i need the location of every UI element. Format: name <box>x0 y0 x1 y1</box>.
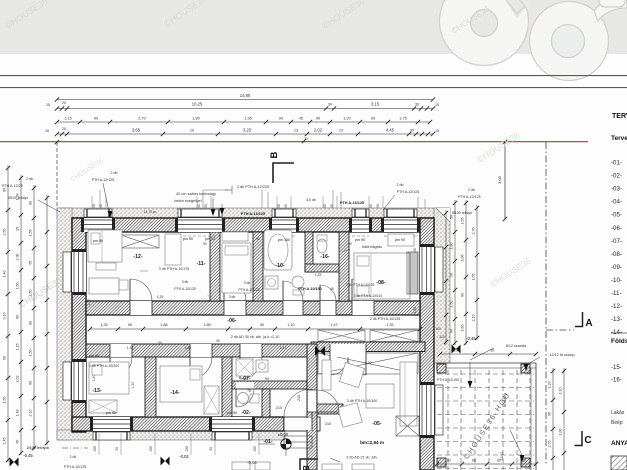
svg-text:80: 80 <box>472 459 476 463</box>
wall stub entry right <box>317 404 343 414</box>
wall mid A below top rooms <box>86 301 420 315</box>
double door room 05 <box>330 344 366 375</box>
dimension chain 10,25 row <box>57 108 433 110</box>
svg-text:-12-: -12- <box>133 254 142 260</box>
svg-text:90: 90 <box>260 323 264 327</box>
svg-text:PTH A-10/125: PTH A-10/125 <box>238 288 259 292</box>
svg-text:Beép: Beép <box>611 420 623 426</box>
svg-text:90: 90 <box>92 204 96 208</box>
svg-text:1,15: 1,15 <box>64 117 71 121</box>
terrace dim chain col 2 <box>563 368 565 470</box>
door bath 10 <box>283 281 303 315</box>
door room 12 <box>130 279 152 315</box>
svg-text:90: 90 <box>256 237 260 241</box>
svg-text:PTH A-12/125: PTH A-12/125 <box>397 190 420 194</box>
svg-text:90: 90 <box>371 117 375 121</box>
wall mid B right section <box>311 342 425 352</box>
svg-text:90: 90 <box>376 204 380 208</box>
red property line <box>0 141 588 142</box>
svg-text:1,00: 1,00 <box>559 429 563 436</box>
svg-text:-13-: -13- <box>611 316 622 323</box>
window bath 10 top <box>269 209 299 236</box>
svg-text:150: 150 <box>185 446 189 452</box>
entry steps <box>284 436 312 448</box>
svg-text:2 db: 2 db <box>16 254 20 261</box>
svg-text:-14-: -14- <box>611 329 622 336</box>
svg-text:pm 90: pm 90 <box>106 411 116 415</box>
svg-text:-16-: -16- <box>611 378 622 384</box>
section marker B bottom <box>300 459 318 470</box>
svg-text:-0,45: -0,45 <box>23 453 33 458</box>
svg-text:210: 210 <box>325 422 331 426</box>
door room 11 <box>224 279 246 315</box>
left dim chain col 4 <box>46 195 48 445</box>
svg-text:90: 90 <box>204 204 208 208</box>
svg-text:Lakás: Lakás <box>611 410 625 416</box>
svg-text:1,50: 1,50 <box>3 397 7 404</box>
svg-text:1,55: 1,55 <box>461 218 465 225</box>
svg-text:20: 20 <box>62 101 66 105</box>
svg-text:1,80: 1,80 <box>192 117 199 121</box>
svg-text:3 db PTH A-10/200: 3 db PTH A-10/200 <box>89 364 120 368</box>
svg-text:-06-: -06- <box>227 318 236 324</box>
svg-text:-13-: -13- <box>92 388 101 394</box>
legend material swatch <box>611 456 627 470</box>
right dim chain col 1 <box>454 200 456 345</box>
svg-text:pm 90: pm 90 <box>205 237 215 241</box>
svg-text:2 db: 2 db <box>70 455 77 459</box>
wardrobe room 12 <box>165 234 181 265</box>
svg-text:90: 90 <box>203 242 207 246</box>
corridor dimension chain <box>90 328 420 330</box>
svg-text:2 db: 2 db <box>468 188 475 192</box>
partition 16 bottom <box>305 264 347 272</box>
door wc 16 <box>320 285 336 315</box>
svg-text:-0,04: -0,04 <box>247 460 257 465</box>
svg-text:2,02: 2,02 <box>314 128 323 133</box>
svg-text:pm 90: pm 90 <box>183 237 193 241</box>
svg-text:1,30: 1,30 <box>127 346 134 350</box>
svg-text:3 db: 3 db <box>182 280 189 284</box>
svg-text:90: 90 <box>3 356 7 360</box>
svg-text:45: 45 <box>299 117 303 121</box>
svg-text:90: 90 <box>330 204 334 208</box>
svg-text:8/12 szarufa: 8/12 szarufa <box>506 344 527 348</box>
svg-text:pm 90: pm 90 <box>93 239 103 243</box>
window room 13 bottom <box>90 417 133 440</box>
svg-text:-10-: -10- <box>275 263 284 269</box>
terrace post bottom right <box>521 458 530 467</box>
partition 13/14 <box>145 357 156 417</box>
door room 14 <box>190 344 212 379</box>
svg-text:TERVE: TERVE <box>612 113 627 120</box>
svg-text:14,80: 14,80 <box>240 93 251 98</box>
svg-text:PTH A-10/125: PTH A-10/125 <box>174 287 195 291</box>
svg-text:1,40: 1,40 <box>3 271 7 278</box>
svg-text:1,20: 1,20 <box>548 382 552 389</box>
bed room 12 <box>88 230 122 270</box>
table room 05 <box>366 384 394 408</box>
svg-text:-10-: -10- <box>611 277 622 284</box>
svg-text:90: 90 <box>413 248 417 252</box>
lintel X-brace between top windows <box>121 235 159 248</box>
svg-text:3 db: 3 db <box>229 295 236 299</box>
wardrobe X living room <box>396 416 419 436</box>
svg-text:30: 30 <box>415 103 419 107</box>
toilet wc 16 <box>317 235 327 253</box>
svg-text:-11-: -11- <box>611 290 622 297</box>
terrace top dim chain <box>440 353 536 355</box>
window room 08 top <box>381 209 420 236</box>
svg-text:80: 80 <box>497 459 501 463</box>
dash-dot section line A <box>545 142 547 465</box>
svg-text:90: 90 <box>94 117 98 121</box>
svg-text:15: 15 <box>45 129 49 133</box>
svg-text:1,47: 1,47 <box>280 346 287 350</box>
svg-text:PTH A-10/150: PTH A-10/150 <box>298 287 321 291</box>
svg-text:tükörvilágítás: tükörvilágítás <box>362 245 382 249</box>
gravel bed left band <box>57 208 72 440</box>
svg-text:90: 90 <box>29 201 33 205</box>
svg-text:80: 80 <box>447 459 451 463</box>
beam X-brace living room <box>318 353 418 374</box>
svg-text:3-0 db: 3-0 db <box>306 198 316 202</box>
svg-text:2,50: 2,50 <box>87 299 91 306</box>
svg-text:90: 90 <box>284 204 288 208</box>
svg-text:150: 150 <box>93 446 97 452</box>
svg-text:12/12 fa oszlop: 12/12 fa oszlop <box>549 353 574 357</box>
svg-text:C: C <box>584 435 591 446</box>
svg-text:1,80: 1,80 <box>203 323 210 327</box>
shelf room 11 <box>222 232 248 241</box>
window room 14 bottom <box>209 417 255 440</box>
svg-text:1,25: 1,25 <box>157 295 164 299</box>
svg-text:pm 90: pm 90 <box>395 238 405 242</box>
svg-text:-01-: -01- <box>611 160 622 167</box>
svg-text:90: 90 <box>29 321 33 325</box>
HOUSE36 logo digit 6 <box>530 0 627 81</box>
svg-text:30: 30 <box>490 349 494 353</box>
svg-text:4,45: 4,45 <box>386 128 395 133</box>
wardrobe room 08 <box>388 234 414 246</box>
sink room 02 <box>238 393 260 404</box>
svg-text:Ø100 lefolyók: Ø100 lefolyók <box>27 446 50 450</box>
terrace edge right <box>535 363 537 470</box>
svg-text:90: 90 <box>348 242 352 246</box>
terrace door room 05 right <box>420 382 443 438</box>
dimension chain detail row <box>57 121 430 123</box>
outer wall right <box>420 218 434 470</box>
svg-text:-05-: -05- <box>611 212 622 219</box>
svg-text:2,50: 2,50 <box>92 375 96 382</box>
svg-text:2,10: 2,10 <box>472 315 476 322</box>
wall 01/05 <box>307 344 317 470</box>
leader arrows top wall <box>211 209 216 216</box>
svg-text:1,60: 1,60 <box>461 325 465 332</box>
svg-text:3,06: 3,06 <box>461 255 465 262</box>
svg-text:30: 30 <box>450 273 454 277</box>
svg-text:90: 90 <box>316 117 320 121</box>
svg-text:2,02: 2,02 <box>16 376 20 383</box>
svg-text:30: 30 <box>328 103 332 107</box>
svg-text:30: 30 <box>115 447 119 451</box>
svg-text:40 cm széles kavicságy: 40 cm széles kavicságy <box>176 192 216 196</box>
svg-text:beton szegéllyel: beton szegéllyel <box>174 199 201 203</box>
svg-text:-0,02: -0,02 <box>179 454 189 459</box>
svg-text:3 db PTH A-10/110: 3 db PTH A-10/110 <box>354 294 383 298</box>
terrace post top right <box>521 364 530 373</box>
door room 07 <box>240 344 262 379</box>
cabinet room 05 <box>322 360 331 390</box>
svg-text:A: A <box>585 318 592 329</box>
wall mid B above bottom rooms <box>86 344 317 357</box>
eaves dimension line 3,00 <box>504 142 506 219</box>
svg-text:-08-: -08- <box>376 280 385 286</box>
svg-text:2 db PTH A-10/125: 2 db PTH A-10/125 <box>370 317 401 321</box>
bed room 14 <box>160 366 202 402</box>
svg-text:1,28: 1,28 <box>16 194 20 201</box>
outer wall left <box>72 218 86 432</box>
partition 02/01 <box>262 389 270 417</box>
svg-text:-02-: -02- <box>611 173 622 180</box>
svg-text:1,75: 1,75 <box>399 117 406 121</box>
svg-text:1,80: 1,80 <box>185 346 192 350</box>
svg-text:2,10: 2,10 <box>559 388 563 395</box>
svg-text:-03-: -03- <box>611 186 622 193</box>
window room 11 top <box>175 209 225 236</box>
svg-text:-02-: -02- <box>241 410 250 416</box>
svg-text:45: 45 <box>29 261 33 265</box>
window room 12 left <box>63 249 86 295</box>
bed room 11 <box>222 243 251 293</box>
svg-text:pm 90: pm 90 <box>89 354 99 358</box>
svg-text:2 db PTH A-12/225: 2 db PTH A-12/225 <box>237 185 269 189</box>
terrace post bottom left <box>437 458 446 467</box>
HOUSE36 logo digit 3 <box>440 0 535 66</box>
svg-text:90: 90 <box>279 117 283 121</box>
svg-text:-07-: -07- <box>611 238 622 245</box>
svg-text:ANYA: ANYA <box>611 440 627 447</box>
label leader verticals <box>100 190 425 208</box>
svg-text:90: 90 <box>29 381 33 385</box>
sofa room 05 <box>400 362 417 426</box>
svg-text:90: 90 <box>450 329 454 333</box>
svg-text:1,05: 1,05 <box>472 274 476 281</box>
threshold marker living door <box>315 346 325 356</box>
left boundary dashed line <box>56 142 58 208</box>
svg-text:10: 10 <box>339 129 343 133</box>
svg-text:3 db PTH A-10/175: 3 db PTH A-10/175 <box>159 267 190 271</box>
washer room 07 <box>256 360 268 372</box>
svg-text:90: 90 <box>548 412 552 416</box>
svg-text:PTH A-12/125: PTH A-12/125 <box>64 465 87 469</box>
header gray band <box>0 0 627 54</box>
svg-text:1,50: 1,50 <box>16 283 20 290</box>
svg-text:1,80: 1,80 <box>450 243 454 250</box>
small furniture bottom <box>232 462 374 470</box>
svg-text:15: 15 <box>46 103 50 107</box>
right dim chain col 0 <box>445 210 447 345</box>
svg-text:-15-: -15- <box>611 365 622 371</box>
svg-text:1,10: 1,10 <box>287 323 294 327</box>
svg-text:1,50: 1,50 <box>450 301 454 308</box>
outer wall top <box>72 218 434 232</box>
bed room 08 <box>354 253 410 299</box>
svg-text:PTH A-12/125: PTH A-12/125 <box>458 195 481 199</box>
svg-text:15: 15 <box>435 129 439 133</box>
svg-text:1,35: 1,35 <box>386 323 393 327</box>
svg-text:2 db: 2 db <box>26 177 33 181</box>
svg-text:2 db: 2 db <box>111 171 118 175</box>
outer wall bottom left section <box>72 417 284 431</box>
bathtub room 10 <box>264 230 292 270</box>
svg-text:13: 13 <box>294 129 298 133</box>
cabinet room 13 <box>89 400 117 413</box>
svg-text:-06-: -06- <box>611 225 622 232</box>
svg-text:-14-: -14- <box>170 390 179 396</box>
gravel bed bottom band <box>57 430 285 440</box>
gravel bed top band <box>57 208 450 218</box>
bed room 13 <box>89 362 129 394</box>
svg-text:2,50: 2,50 <box>3 229 7 236</box>
svg-text:80: 80 <box>522 459 526 463</box>
svg-text:90: 90 <box>128 323 132 327</box>
svg-text:90: 90 <box>277 204 281 208</box>
svg-text:-08-: -08- <box>611 251 622 258</box>
svg-text:90: 90 <box>461 293 465 297</box>
svg-text:-16-: -16- <box>320 254 329 260</box>
svg-text:90: 90 <box>99 204 103 208</box>
svg-text:15: 15 <box>16 227 20 231</box>
armchair 1 room 05 <box>339 362 364 387</box>
svg-text:30: 30 <box>410 129 414 133</box>
window wc 16 top <box>349 209 372 236</box>
svg-text:3,25: 3,25 <box>243 128 252 133</box>
svg-text:1,15: 1,15 <box>16 344 20 351</box>
gravel corner chamfer <box>436 208 450 222</box>
partition 12/11 <box>210 232 220 301</box>
svg-text:-12-: -12- <box>611 303 622 310</box>
svg-text:210: 210 <box>297 395 301 401</box>
svg-text:10,25: 10,25 <box>192 102 203 107</box>
leader horizontal A-12/225 <box>203 189 228 191</box>
svg-text:2,45: 2,45 <box>3 438 7 445</box>
dimension chain 14,80 <box>57 99 433 101</box>
svg-text:-04-: -04- <box>611 199 622 206</box>
svg-text:PTH A-12/150: PTH A-12/150 <box>437 378 459 382</box>
terrace slab edge top <box>436 362 536 364</box>
svg-text:150: 150 <box>149 446 153 452</box>
svg-text:pm 90: pm 90 <box>227 411 237 415</box>
horizontal rule 2 <box>0 87 627 88</box>
svg-text:1,50: 1,50 <box>29 350 33 357</box>
terrace dim chain col 1 <box>552 368 554 470</box>
svg-text:90: 90 <box>369 204 373 208</box>
svg-text:-09-: -09- <box>611 264 622 271</box>
svg-text:1,50: 1,50 <box>413 307 417 313</box>
shower room 07 <box>236 359 253 376</box>
svg-text:210: 210 <box>439 335 445 339</box>
right dim chain col 3 <box>476 205 478 340</box>
svg-text:3 db PTH A-10/100: 3 db PTH A-10/100 <box>347 399 378 403</box>
door room 02 <box>236 382 254 407</box>
partition 14/07 <box>222 357 232 417</box>
svg-text:45: 45 <box>16 440 20 444</box>
svg-text:2,76: 2,76 <box>548 441 552 448</box>
partition 11/10 <box>253 232 263 301</box>
terrace post top left <box>437 364 446 373</box>
svg-text:PTH A-13/125: PTH A-13/125 <box>340 201 364 205</box>
right dim chain col 2 <box>465 200 467 345</box>
washer room 10 <box>265 276 278 289</box>
window room 08 right <box>420 244 443 295</box>
radiator room 08 <box>407 252 418 294</box>
lintel X-braces corridor right <box>318 330 418 342</box>
svg-text:11,72 m: 11,72 m <box>144 210 157 214</box>
door room 08 <box>352 279 374 315</box>
svg-text:90: 90 <box>16 315 20 319</box>
svg-text:1,25: 1,25 <box>100 323 107 327</box>
svg-text:1,50: 1,50 <box>131 382 135 389</box>
svg-text:90: 90 <box>3 188 7 192</box>
svg-text:90: 90 <box>158 341 162 345</box>
svg-text:1,25: 1,25 <box>315 273 321 277</box>
svg-text:2,45: 2,45 <box>454 349 461 353</box>
svg-text:-07-: -07- <box>241 376 250 382</box>
svg-text:-05-: -05- <box>372 421 381 427</box>
svg-text:2 db: 2 db <box>397 183 404 187</box>
window room 12 top <box>81 209 115 236</box>
window room 13 left <box>63 359 86 403</box>
svg-text:1,88: 1,88 <box>160 323 167 327</box>
svg-text:bm=2,94 m: bm=2,94 m <box>360 440 384 445</box>
entry door <box>284 389 312 431</box>
svg-text:2,70: 2,70 <box>138 117 145 121</box>
svg-text:PTH A-12/25: PTH A-12/25 <box>2 184 23 188</box>
desk room 12 <box>89 278 128 294</box>
svg-text:2,50: 2,50 <box>29 290 33 297</box>
partition 10/08 <box>339 232 349 301</box>
door living room from hall <box>307 390 339 412</box>
svg-text:2 db AD 30 vb. áth. |a.k.=2,10: 2 db AD 30 vb. áth. |a.k.=2,10 <box>231 335 280 339</box>
partition 10/16 <box>305 232 313 272</box>
svg-text:15: 15 <box>435 103 439 107</box>
svg-text:160: 160 <box>435 327 441 331</box>
svg-text:3,10: 3,10 <box>3 313 7 320</box>
gravel bed right band <box>434 208 450 363</box>
svg-text:50: 50 <box>450 215 454 219</box>
svg-text:40: 40 <box>330 287 334 291</box>
svg-text:1,20: 1,20 <box>343 117 350 121</box>
svg-text:210: 210 <box>276 406 282 410</box>
terrace bottom dim chain <box>437 463 536 465</box>
svg-text:pm 150: pm 150 <box>278 238 290 242</box>
svg-text:B: B <box>302 465 311 470</box>
terrace joists <box>437 370 534 470</box>
dimension chain 3,65 row <box>57 133 433 135</box>
svg-text:3,65: 3,65 <box>132 128 141 133</box>
armchair 2 room 05 <box>338 403 362 427</box>
partition 07/02 horizontal <box>232 381 307 389</box>
svg-text:3 db PTH A-10/125: 3 db PTH A-10/125 <box>346 283 375 287</box>
svg-text:75: 75 <box>247 389 251 393</box>
svg-text:3,15: 3,15 <box>371 102 380 107</box>
svg-text:2,10: 2,10 <box>29 410 33 417</box>
svg-text:20: 20 <box>62 127 66 131</box>
svg-text:1,95: 1,95 <box>244 117 251 121</box>
wall entry section bottom <box>284 417 320 431</box>
svg-text:1,40: 1,40 <box>16 410 20 417</box>
